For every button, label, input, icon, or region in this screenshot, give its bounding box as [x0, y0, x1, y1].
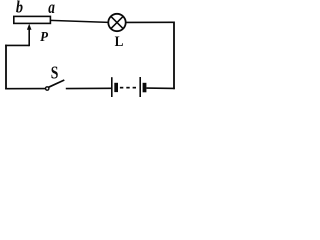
wire: left vertical [5, 45, 7, 90]
wire: slider stem horizontal [5, 44, 29, 46]
battery cell 2 negative plate (thick short) [143, 83, 147, 93]
svg-text:L: L [115, 33, 124, 50]
rheostat R (slide rheostat body) [14, 16, 51, 23]
svg-text:P: P [40, 29, 49, 45]
wire: battery to switch fixed contact [66, 87, 111, 89]
svg-text:b: b [16, 0, 23, 17]
wire: lamp to top-right corner [126, 21, 174, 23]
wire: left rail to switch [5, 88, 45, 90]
svg-text:a: a [48, 0, 55, 18]
wire: rheostat terminal a to lamp [51, 20, 109, 22]
wire: bottom right to battery [146, 87, 174, 89]
lamp L (circle with X) [108, 14, 125, 31]
battery cell 1 negative plate (thick short) [114, 83, 118, 92]
battery cell 1 positive plate (long thin) [111, 77, 113, 97]
switch S lever [49, 80, 65, 87]
svg-text:S: S [51, 64, 59, 83]
slider arrow head [27, 24, 32, 30]
switch S pivot [46, 87, 49, 90]
wire: right vertical [173, 22, 175, 90]
slider arrow P stem [28, 29, 30, 47]
battery cell 2 positive plate (long thin) [139, 77, 141, 97]
battery dashed link [120, 87, 123, 89]
